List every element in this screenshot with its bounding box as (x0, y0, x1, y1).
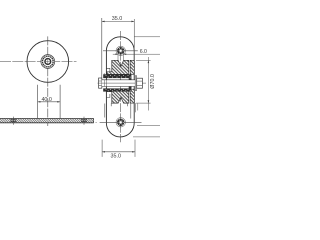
bolt axis centerline (98, 82, 147, 84)
plate hole right hidden edges (81, 120, 87, 122)
stadium bottom tangent extension line (133, 136, 160, 138)
dimension dia70 top arrow (148, 60, 150, 63)
bracket vertical centerline (120, 31, 122, 142)
plate bar bottom edge (0, 122, 94, 124)
pulley rim lower stubs (111, 103, 127, 106)
dimension 35.0 top right arrow (131, 21, 134, 23)
bracket wall section strip upper right (130, 60, 134, 74)
bearing band top (103, 74, 131, 78)
plate hole center mark left (12, 117, 14, 125)
dimension 35.0 top left arrow (102, 21, 105, 23)
dimension 35.0 top right extension line (133, 19, 135, 60)
bolt shaft bottom line (102, 86, 137, 88)
dimension 40.0 right extension line (59, 85, 61, 119)
dimension 6.0 right extension line (123, 53, 125, 60)
plate hole center mark right (83, 117, 85, 125)
svg-text:Ø70.0: Ø70.0 (150, 74, 156, 89)
wheel hub knurled ring (42, 56, 53, 67)
hex bolt head chamfer lines (137, 81, 143, 85)
bracket wall upper fold lines (106, 68, 110, 72)
dimension 35.0 bottom right arrow (132, 151, 135, 153)
plate bar top edge (0, 118, 94, 120)
dimension 35.0 bottom right extension line (134, 140, 136, 157)
pulley section lower block (107, 89, 129, 103)
wheel hub inner dark ring (45, 59, 51, 65)
pulley section upper block (107, 60, 129, 74)
bottom hub bore (119, 121, 122, 124)
top hub horizontal centerline (103, 50, 138, 52)
bracket slot inner edges below pulley (105, 103, 131, 118)
dimension 35.0 bottom left extension line (101, 140, 103, 157)
bearing band bottom (103, 88, 131, 91)
svg-text:40.0: 40.0 (41, 97, 52, 103)
plate hole edges crossing shaft (104, 80, 106, 87)
wheel front-view outer circle (27, 41, 69, 83)
svg-text:35.0: 35.0 (111, 154, 122, 160)
dimension 40.0 line (38, 101, 61, 103)
dimension 35.0 top left extension line (101, 18, 103, 78)
dimension 6.0 left extension line (117, 53, 119, 60)
bolt shaft white fill (102, 80, 137, 87)
bracket stadium outline (106, 37, 134, 137)
dimension dia70 top extension line (136, 59, 151, 61)
dimension dia70 vertical line (147, 57, 149, 111)
dimension 40.0 left extension line (37, 85, 39, 119)
dimension 40.0 left arrow (38, 101, 41, 103)
bottom hub knurled ring (118, 120, 123, 125)
dimension 35.0 top line (102, 20, 134, 22)
bracket wall section strip lower right (130, 89, 134, 103)
stadium top tangent extension line (134, 36, 160, 38)
top hub bore (119, 49, 122, 52)
plate bar right end edge (93, 119, 95, 123)
dimension dia70 bottom extension line (136, 102, 151, 104)
washer dark caps at pulley right (129, 78, 132, 80)
dimension dia70 bottom arrow (148, 100, 150, 103)
wheel hub outer thin circle (41, 55, 55, 69)
plate hole left hidden edges (10, 120, 16, 122)
dimension 40.0 right arrow (57, 101, 60, 103)
side extra leader line (137, 124, 160, 126)
top hub outer thin circle (116, 46, 125, 55)
wheel hub bore crosshair (45, 58, 51, 64)
hex bolt head (137, 78, 143, 88)
bottom hub outer thin circle (116, 118, 125, 127)
wheel horizontal centerline (0, 61, 77, 63)
bottom hub horizontal centerline (96, 121, 142, 123)
dimension 35.0 bottom line (102, 151, 135, 153)
dimension 6.0 line to text (124, 53, 160, 55)
bolt shaft top line (102, 79, 137, 81)
back screw head (99, 78, 102, 88)
dimension 35.0 bottom left arrow (102, 151, 105, 153)
wheel vertical centerline (47, 36, 49, 126)
rim lower-right edge stubs (135, 103, 138, 112)
plate side section strip (102, 73, 104, 88)
svg-text:35.0: 35.0 (112, 16, 123, 22)
dimension 6.0 left outside arrow (113, 53, 118, 55)
top hub knurled ring (118, 48, 123, 53)
svg-text:6.0: 6.0 (140, 49, 147, 55)
washer before bolt head (135, 76, 137, 91)
plate bar hatched section (0, 119, 94, 123)
bracket wall lower fold lines (106, 94, 110, 97)
